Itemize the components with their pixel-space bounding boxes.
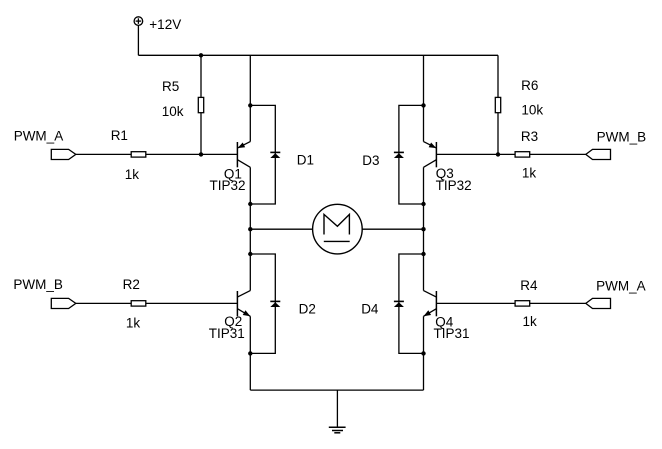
resistor R2 xyxy=(131,301,146,306)
wire D2 branch xyxy=(250,254,275,353)
wire left column from rail to Q1 emitter xyxy=(249,55,251,141)
wire Q3 base to PWM_B xyxy=(436,153,585,155)
ground xyxy=(329,427,346,433)
resistor R5 xyxy=(198,97,203,112)
wire right column from rail to Q3 emitter xyxy=(423,55,425,141)
node D4 top junction xyxy=(421,252,425,256)
diode D2 xyxy=(270,301,280,307)
wire right column Q4 emitter to bottom bus xyxy=(423,316,425,390)
wire R5 drop from rail xyxy=(200,55,202,154)
svg-text:PWM_B: PWM_B xyxy=(13,277,63,292)
svg-text:+12V: +12V xyxy=(149,17,181,32)
wire PWM_B to Q2 base xyxy=(76,302,238,304)
svg-text:1k: 1k xyxy=(522,166,537,181)
transistor Q2 xyxy=(237,291,250,317)
transistor Q3 xyxy=(424,142,437,168)
svg-text:10k: 10k xyxy=(162,104,184,119)
wire left column Q1 collector to Q2 collector xyxy=(249,167,251,290)
svg-text:1k: 1k xyxy=(125,167,140,182)
transistor Q4 xyxy=(424,291,437,317)
wire R6 drop from rail xyxy=(497,55,499,154)
resistor R4 xyxy=(515,301,530,306)
power +12V symbol xyxy=(134,17,143,26)
diode D1 xyxy=(270,152,280,158)
resistor R3 xyxy=(515,152,530,157)
svg-text:TIP32: TIP32 xyxy=(210,178,246,193)
node base-R5 junction xyxy=(199,152,203,156)
svg-text:R4: R4 xyxy=(520,278,538,293)
diode D4 xyxy=(394,301,404,307)
connector PWM_A (bottom right) xyxy=(586,298,611,308)
wire PWM_A to Q1 base xyxy=(76,153,238,155)
node D4 bottom junction xyxy=(421,351,425,355)
svg-text:R2: R2 xyxy=(123,277,140,292)
svg-text:D2: D2 xyxy=(299,302,316,317)
connector PWM_A (top left) xyxy=(51,149,76,159)
node D3 top junction xyxy=(421,103,425,107)
svg-text:TIP32: TIP32 xyxy=(436,178,472,193)
node D1 top junction xyxy=(248,103,252,107)
wire D1 branch xyxy=(250,105,275,204)
node D1 bottom junction xyxy=(248,202,252,206)
wire top rail xyxy=(138,54,498,56)
resistor R1 xyxy=(131,152,146,157)
svg-text:TIP31: TIP31 xyxy=(209,326,245,341)
motor M1 xyxy=(313,204,363,254)
svg-text:D3: D3 xyxy=(362,153,379,168)
wire motor left xyxy=(250,228,312,230)
wire Q4 base to PWM_A xyxy=(436,302,585,304)
connector PWM_B (bottom left) xyxy=(51,298,76,308)
svg-text:R5: R5 xyxy=(162,79,179,94)
node rail-R5 junction xyxy=(199,53,203,57)
svg-text:PWM_A: PWM_A xyxy=(596,278,646,293)
wire right column Q3 collector to Q4 collector xyxy=(423,167,425,290)
wire motor right xyxy=(362,228,423,230)
svg-text:R1: R1 xyxy=(111,128,128,143)
wire bottom bus xyxy=(250,389,423,391)
resistor R6 xyxy=(495,97,500,112)
node base-R6 junction xyxy=(496,152,500,156)
wire D3 branch xyxy=(399,105,424,204)
node motor right junction xyxy=(421,227,425,231)
transistor Q1 xyxy=(237,142,250,168)
svg-text:1k: 1k xyxy=(126,316,141,331)
connector PWM_B (top right) xyxy=(586,149,611,159)
svg-text:D1: D1 xyxy=(297,153,314,168)
wire left column Q2 emitter to bottom bus xyxy=(249,316,251,390)
wire D4 branch xyxy=(399,254,424,353)
node D2 top junction xyxy=(248,252,252,256)
node D3 bottom junction xyxy=(421,202,425,206)
svg-text:D4: D4 xyxy=(361,302,379,317)
svg-text:R3: R3 xyxy=(521,129,538,144)
diode D3 xyxy=(394,152,404,158)
svg-text:10k: 10k xyxy=(521,103,543,118)
svg-text:R6: R6 xyxy=(521,78,538,93)
svg-text:1k: 1k xyxy=(523,314,538,329)
svg-text:PWM_B: PWM_B xyxy=(597,129,647,144)
wire from +12V to top rail xyxy=(137,25,139,55)
svg-text:TIP31: TIP31 xyxy=(434,326,470,341)
node motor left junction xyxy=(248,227,252,231)
wire ground drop xyxy=(336,390,338,427)
node D2 bottom junction xyxy=(248,351,252,355)
svg-text:PWM_A: PWM_A xyxy=(14,129,64,144)
